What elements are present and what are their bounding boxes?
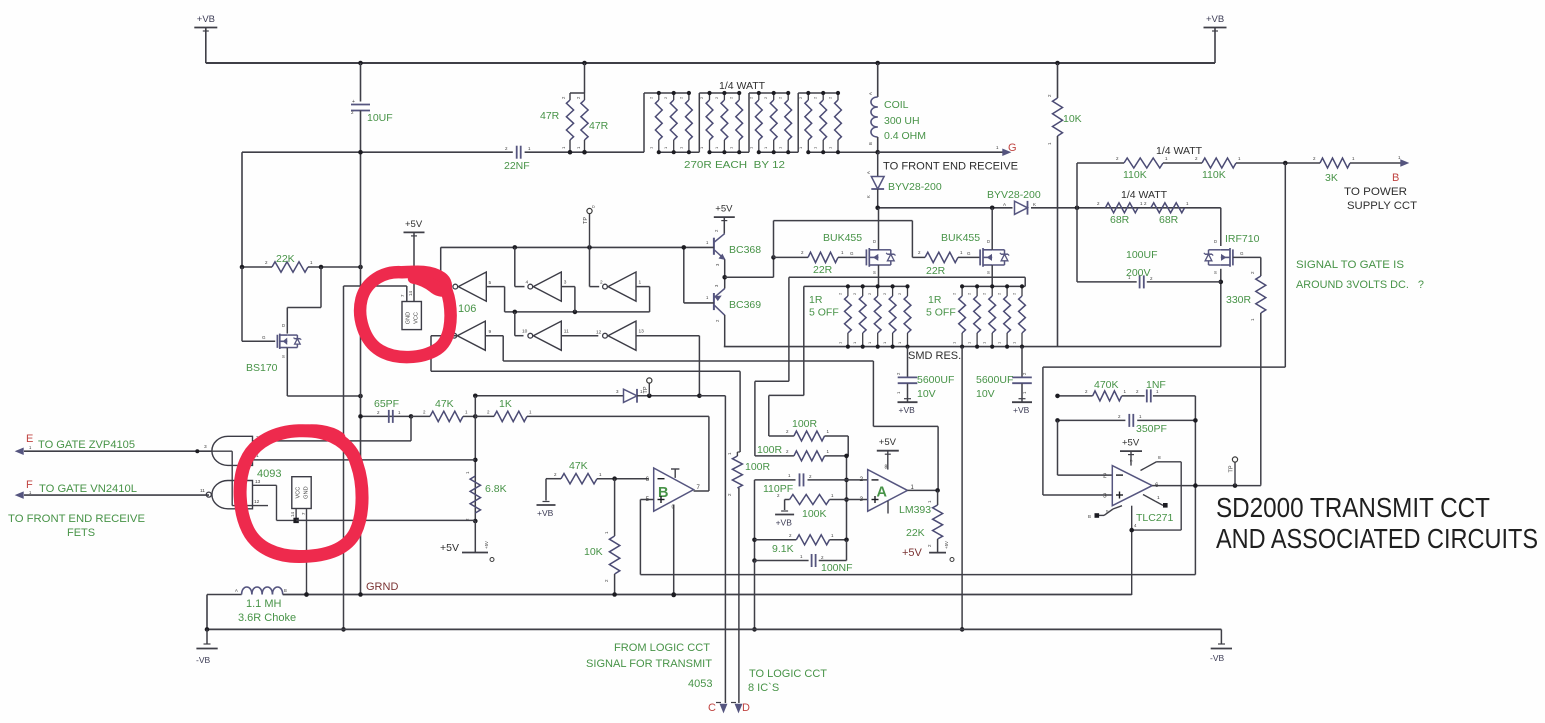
label 4053 bbox=[688, 678, 712, 690]
wire 22K to BS170 drain bbox=[287, 267, 321, 334]
wire 110K row bbox=[1077, 163, 1402, 208]
wire TLC271 output bbox=[1152, 483, 1261, 488]
svg-text:TO POWER: TO POWER bbox=[1344, 186, 1407, 198]
resistor 22R second bbox=[912, 250, 980, 277]
arrow E terminal bbox=[16, 448, 23, 454]
svg-text:11: 11 bbox=[200, 488, 205, 494]
label SIGNAL TO GATE IS bbox=[1296, 259, 1404, 271]
TLC271 pin1 stub bbox=[1143, 495, 1168, 508]
svg-text:G: G bbox=[1240, 251, 1244, 256]
wire source node link y=277.3 bbox=[789, 277, 1025, 286]
label C bbox=[708, 702, 716, 714]
svg-text:8 IC`S: 8 IC`S bbox=[748, 682, 779, 694]
wire 100R-1 left leg bbox=[769, 286, 804, 436]
wire 1K to opampB output bbox=[708, 416, 710, 491]
label F bbox=[26, 479, 33, 495]
svg-text:S: S bbox=[1214, 270, 1217, 275]
label 1/4 WATT bank bbox=[719, 80, 766, 92]
power +VB 47K bbox=[537, 479, 556, 518]
resistor 9.1K bbox=[755, 533, 849, 555]
svg-text:10UF: 10UF bbox=[367, 112, 393, 124]
wire TLC271 plus input bbox=[1043, 163, 1285, 495]
svg-text:110K: 110K bbox=[1202, 169, 1226, 181]
svg-text:100NF: 100NF bbox=[821, 562, 853, 574]
svg-text:+VB: +VB bbox=[537, 508, 554, 518]
svg-text:1K: 1K bbox=[499, 398, 512, 410]
svg-text:LM393: LM393 bbox=[899, 504, 931, 516]
svg-text:1NF: 1NF bbox=[1146, 379, 1166, 391]
label GRND bbox=[366, 581, 398, 593]
svg-text:5600UF: 5600UF bbox=[976, 374, 1013, 386]
inverter U1B bbox=[526, 272, 567, 301]
svg-text:+: + bbox=[352, 99, 355, 105]
power +5V 106 bbox=[404, 219, 425, 302]
svg-text:BC368: BC368 bbox=[729, 244, 761, 256]
label 106 bbox=[458, 303, 476, 315]
svg-text:FETS: FETS bbox=[67, 527, 95, 539]
inverter U1C bbox=[600, 272, 642, 301]
svg-text:68R: 68R bbox=[1159, 214, 1179, 226]
node 47R bottoms bbox=[568, 150, 587, 155]
svg-text:65PF: 65PF bbox=[374, 398, 399, 410]
svg-text:BS170: BS170 bbox=[246, 362, 278, 374]
power +VB 100K bbox=[775, 500, 794, 528]
nand gate 4093a bbox=[204, 436, 253, 465]
svg-text:S: S bbox=[873, 270, 876, 275]
power -VB right bbox=[1210, 629, 1232, 663]
svg-text:+5V: +5V bbox=[902, 547, 923, 559]
wire gate1 input upper bbox=[253, 435, 260, 441]
svg-text:+5V: +5V bbox=[405, 219, 423, 230]
svg-text:COIL: COIL bbox=[884, 99, 909, 111]
wire 106 GND pin to -VB rail bbox=[341, 286, 407, 632]
svg-text:5 OFF: 5 OFF bbox=[809, 307, 839, 319]
transistor BUK455 first bbox=[823, 232, 895, 275]
capacitor 10UF bbox=[351, 63, 393, 152]
wire U1C output to rail bbox=[590, 247, 600, 286]
svg-text:270R EACH BY 12: 270R EACH BY 12 bbox=[684, 159, 785, 171]
svg-text:G: G bbox=[967, 251, 971, 256]
resistor 270R #5 bbox=[714, 91, 728, 154]
power +5V BC368 bbox=[714, 204, 735, 234]
inverter U1A bbox=[453, 272, 492, 301]
svg-text:3: 3 bbox=[564, 280, 567, 286]
svg-text:GND: GND bbox=[406, 312, 412, 324]
svg-text:A: A bbox=[1003, 202, 1006, 207]
svg-text:BUK455: BUK455 bbox=[941, 232, 980, 244]
svg-text:D: D bbox=[1214, 239, 1217, 244]
svg-text:A: A bbox=[866, 171, 871, 174]
wire +5V net y=520.4 bbox=[296, 519, 475, 521]
label FROM LOGIC CCT bbox=[614, 642, 710, 654]
svg-text:S: S bbox=[282, 354, 285, 359]
resistor 1R bank1 #5 bbox=[897, 284, 911, 348]
resistor 270R #3 bbox=[678, 91, 692, 154]
svg-text:22R: 22R bbox=[926, 265, 946, 277]
capacitor 65PF bbox=[374, 398, 401, 423]
svg-text:10V: 10V bbox=[976, 388, 995, 400]
label 1/4 WATT 68R bbox=[1121, 189, 1168, 201]
capacitor 22NF bbox=[504, 146, 531, 172]
svg-text:B: B bbox=[284, 588, 287, 593]
svg-text:100K: 100K bbox=[802, 508, 827, 520]
svg-text:K: K bbox=[866, 195, 871, 198]
wire BUK455-1 drain bbox=[878, 208, 880, 250]
wire bank bottom segments bbox=[659, 151, 878, 153]
svg-text:B: B bbox=[1392, 172, 1399, 184]
svg-text:K: K bbox=[1033, 202, 1036, 207]
svg-text:47R: 47R bbox=[540, 110, 560, 122]
resistor 6.8K bbox=[465, 471, 507, 521]
wire U1A output to rail bbox=[441, 247, 450, 286]
svg-text:350PF: 350PF bbox=[1136, 423, 1167, 435]
wire drain row y=208 bbox=[878, 207, 1221, 209]
wire BUK455-2 drain bbox=[991, 208, 993, 250]
svg-text:1: 1 bbox=[1157, 495, 1160, 501]
TLC271 pin5 stub bbox=[1088, 506, 1122, 519]
label E bbox=[26, 433, 33, 450]
svg-text:10K: 10K bbox=[1063, 113, 1082, 125]
resistor 470K bbox=[1085, 379, 1127, 401]
resistor 330R bbox=[1226, 271, 1266, 321]
svg-text:GRND: GRND bbox=[366, 581, 398, 593]
svg-text:TO LOGIC CCT: TO LOGIC CCT bbox=[749, 668, 827, 680]
transistor BUK455 second bbox=[941, 232, 1009, 275]
wire U1C input riser bbox=[636, 287, 650, 312]
node 47K-1K junction bbox=[473, 414, 478, 419]
resistor 1R bank2 #3 bbox=[982, 284, 996, 348]
wire arrow F bbox=[24, 494, 209, 496]
svg-text:1R: 1R bbox=[928, 294, 942, 306]
label SMD RES bbox=[908, 350, 961, 362]
svg-text:5 OFF: 5 OFF bbox=[926, 307, 956, 319]
transistor BC368 bbox=[706, 229, 761, 266]
resistor 22K bbox=[242, 253, 361, 272]
resistor 47R second bbox=[576, 93, 609, 152]
resistor 110K first bbox=[1116, 156, 1168, 181]
resistor 1R bank1 #2 bbox=[852, 284, 866, 348]
wire source bus y=346.6 bbox=[724, 346, 1221, 348]
svg-text:2: 2 bbox=[1103, 473, 1107, 480]
wire opampB ground pin bbox=[671, 505, 676, 598]
resistor 110K second bbox=[1195, 156, 1241, 181]
svg-text:GND: GND bbox=[304, 486, 310, 498]
inverter U1D bbox=[452, 321, 492, 350]
svg-text:10V: 10V bbox=[917, 388, 936, 400]
wire arrow E bbox=[24, 449, 212, 453]
svg-text:9.1K: 9.1K bbox=[772, 543, 794, 555]
label title line2 bbox=[1216, 523, 1538, 554]
resistor 1R bank1 #4 bbox=[882, 284, 896, 348]
resistor 270R #8 bbox=[763, 91, 777, 154]
capacitor 100UF 200V bbox=[1077, 208, 1221, 289]
label TO FRONT END RECEIVE bbox=[883, 161, 1018, 173]
svg-text:1R: 1R bbox=[809, 294, 823, 306]
resistor 68R first bbox=[1097, 201, 1143, 226]
wire node396 to C line bbox=[699, 396, 725, 703]
power +VB top-right bbox=[1204, 14, 1227, 63]
svg-text:+5V: +5V bbox=[484, 541, 489, 549]
node 110K-3K junction bbox=[1283, 161, 1288, 166]
label TO POWER SUPPLY CCT bbox=[1344, 186, 1417, 212]
svg-text:B: B bbox=[1088, 514, 1091, 519]
svg-text:13: 13 bbox=[639, 329, 645, 335]
resistor 10K opampB bbox=[584, 479, 620, 595]
wire gate drive split bbox=[774, 221, 913, 258]
label 8 ICS bbox=[748, 682, 779, 694]
svg-text:G: G bbox=[262, 335, 266, 340]
svg-text:D: D bbox=[987, 239, 990, 244]
wire 475 vertical bbox=[473, 396, 478, 521]
wire bank top buses bbox=[644, 92, 838, 94]
wire IRF710 gate to 330R bbox=[1233, 257, 1261, 276]
svg-text:3.6R Choke: 3.6R Choke bbox=[238, 612, 296, 624]
svg-text:100R: 100R bbox=[792, 418, 818, 430]
label 4093 bbox=[257, 468, 281, 480]
svg-text:100R: 100R bbox=[757, 444, 783, 456]
svg-text:AROUND 3VOLTS DC. ?: AROUND 3VOLTS DC. ? bbox=[1296, 279, 1424, 291]
resistor 1R bank2 #1 bbox=[952, 284, 966, 348]
svg-text:+5V: +5V bbox=[879, 437, 897, 448]
svg-text:330R: 330R bbox=[1226, 294, 1252, 306]
svg-text:2: 2 bbox=[860, 476, 864, 483]
svg-text:TP: TP bbox=[1229, 465, 1235, 472]
resistor 1R bank2 #5 bbox=[1012, 284, 1026, 348]
svg-text:+5V: +5V bbox=[944, 541, 949, 549]
resistor 270R #10 bbox=[798, 91, 812, 154]
wire 65PF junction to gate1 bbox=[253, 416, 412, 441]
wire U1F input to diode node bbox=[636, 336, 699, 396]
wire BC369 base bbox=[684, 247, 714, 303]
label AROUND 3VOLTS DC bbox=[1296, 279, 1424, 291]
node 4093 vcc square bbox=[293, 509, 298, 524]
svg-text:+5V: +5V bbox=[1122, 438, 1140, 449]
capacitor 110PF bbox=[763, 473, 812, 495]
inductor COIL 300UH bbox=[868, 63, 926, 152]
label G bbox=[1008, 142, 1017, 154]
annotation red circle large bbox=[240, 430, 362, 557]
wire 350PF row bbox=[1055, 418, 1198, 423]
svg-text:D: D bbox=[873, 239, 876, 244]
resistor 47K osc bbox=[411, 398, 475, 422]
resistor 270R #2 bbox=[663, 91, 677, 154]
op-amp B bbox=[646, 468, 701, 511]
node 6.8K bottom bbox=[473, 519, 478, 524]
diode transmit-enable bbox=[473, 389, 702, 403]
arrow D terminal bbox=[731, 703, 742, 713]
svg-text:106: 106 bbox=[458, 303, 476, 315]
resistor 1R bank2 #2 bbox=[967, 284, 981, 348]
wire gate2 pin13 bbox=[253, 479, 294, 520]
wire BUK455-1 source bbox=[878, 265, 880, 286]
svg-text:TO GATE VN2410L: TO GATE VN2410L bbox=[39, 483, 137, 495]
power +5V opampA bbox=[877, 437, 899, 469]
svg-text:VCC: VCC bbox=[296, 487, 302, 499]
wire 100R right join bbox=[825, 436, 849, 540]
svg-text:1/4 WATT: 1/4 WATT bbox=[1121, 189, 1168, 201]
wire mid rail y=311.9 bbox=[505, 310, 650, 315]
capacitor 1NF bbox=[1136, 379, 1166, 402]
annotation red circle small bbox=[360, 271, 450, 357]
resistor 270R #1 bbox=[648, 91, 662, 154]
wire opampB output bbox=[694, 490, 709, 492]
svg-text:3K: 3K bbox=[1325, 172, 1338, 184]
power -VB left bbox=[196, 629, 218, 665]
wire to G arrow bbox=[878, 145, 1003, 152]
svg-text:0.4 OHM: 0.4 OHM bbox=[884, 130, 926, 142]
wire opampA output node bbox=[908, 488, 940, 493]
svg-text:-VB: -VB bbox=[196, 655, 211, 665]
svg-text:SMD RES.: SMD RES. bbox=[908, 350, 961, 362]
svg-text:300 UH: 300 UH bbox=[884, 115, 920, 127]
inverter U1E bbox=[522, 321, 569, 350]
inverter U1F bbox=[596, 321, 644, 350]
wire 22NF row y=152 bbox=[242, 152, 644, 267]
wire bank2 to -VB bbox=[960, 347, 965, 632]
wire feedback left vertical bbox=[752, 480, 757, 632]
resistor 270R #6 bbox=[729, 91, 743, 154]
svg-text:10: 10 bbox=[522, 329, 528, 335]
wire U1E input to U1F output bbox=[561, 335, 598, 337]
arrow B terminal bbox=[1398, 155, 1408, 166]
resistor 1R bank1 #1 bbox=[837, 284, 851, 348]
wire bank1 top bus bbox=[804, 285, 908, 287]
resistor 270R #4 bbox=[699, 91, 713, 154]
testpoint TP2 bbox=[643, 378, 652, 396]
label B bbox=[1392, 172, 1399, 184]
svg-text:+VB: +VB bbox=[1206, 14, 1224, 25]
label 1R 5 OFF first bbox=[809, 294, 839, 319]
diode BYV28-200 vertical bbox=[866, 152, 942, 208]
arrow G terminal bbox=[1003, 149, 1010, 155]
node ground bus junctions bbox=[304, 592, 676, 597]
svg-text:12: 12 bbox=[254, 499, 260, 505]
svg-text:+VB: +VB bbox=[197, 14, 215, 25]
wire 65PF row y=416.4 bbox=[358, 414, 413, 419]
wire 100R-2 left leg bbox=[755, 277, 794, 456]
svg-text:1/4 WATT: 1/4 WATT bbox=[719, 80, 766, 92]
svg-text:8: 8 bbox=[885, 465, 888, 471]
svg-text:47R: 47R bbox=[589, 120, 609, 132]
wire 330R to TLC271 output bbox=[1260, 313, 1262, 485]
wire TLC271 pin4 to ground bbox=[1129, 506, 1137, 595]
svg-text:200V: 200V bbox=[1126, 267, 1151, 279]
resistor 270R #11 bbox=[813, 91, 827, 154]
capacitor 100NF bbox=[755, 540, 853, 574]
svg-text:SD2000 TRANSMIT CCT: SD2000 TRANSMIT CCT bbox=[1216, 492, 1490, 523]
resistor 1K bbox=[475, 398, 709, 422]
svg-text:+VB: +VB bbox=[899, 405, 916, 415]
svg-text:+VB: +VB bbox=[776, 518, 793, 528]
svg-text:AND ASSOCIATED CIRCUITS: AND ASSOCIATED CIRCUITS bbox=[1216, 523, 1538, 554]
svg-text:4093: 4093 bbox=[257, 468, 281, 480]
svg-text:A: A bbox=[868, 92, 873, 95]
wire U1B input riser bbox=[561, 287, 575, 312]
svg-text:FROM LOGIC CCT: FROM LOGIC CCT bbox=[614, 642, 710, 654]
resistor 270R #12 bbox=[828, 91, 842, 154]
wire 470K row bbox=[1055, 394, 1195, 575]
wire BUK455-2 source bbox=[991, 265, 993, 286]
svg-text:8: 8 bbox=[1158, 455, 1161, 461]
svg-text:IRF710: IRF710 bbox=[1225, 233, 1260, 245]
svg-text:VCC: VCC bbox=[414, 312, 420, 324]
svg-text:1: 1 bbox=[639, 280, 642, 286]
svg-text:SIGNAL FOR TRANSMIT: SIGNAL FOR TRANSMIT bbox=[586, 658, 712, 670]
power +5V 6.8K bottom bbox=[440, 521, 494, 562]
svg-text:+5V: +5V bbox=[715, 204, 733, 215]
wire emitter join bbox=[722, 255, 775, 288]
wire U1A input to mid rail bbox=[486, 287, 504, 312]
node top rail junctions bbox=[358, 61, 1060, 66]
wire U1B output to rail bbox=[515, 247, 525, 286]
resistor 22K opampA bbox=[906, 490, 943, 552]
svg-text:22NF: 22NF bbox=[504, 160, 530, 172]
svg-text:47K: 47K bbox=[435, 398, 454, 410]
svg-text:D: D bbox=[282, 323, 285, 328]
svg-text:4: 4 bbox=[526, 280, 529, 286]
capacitor 350PF bbox=[1118, 414, 1167, 435]
label TO LOGIC CCT bbox=[749, 668, 827, 680]
resistor 100K bbox=[777, 493, 847, 520]
node 22K junctions bbox=[240, 265, 363, 270]
svg-text:TO FRONT END RECEIVE: TO FRONT END RECEIVE bbox=[8, 513, 145, 525]
inductor 1.1MH choke bbox=[207, 587, 1132, 624]
svg-text:9: 9 bbox=[489, 329, 492, 335]
transistor IRF710 bbox=[1204, 233, 1260, 275]
svg-text:100R: 100R bbox=[745, 461, 771, 473]
svg-text:C: C bbox=[708, 702, 716, 714]
svg-text:11: 11 bbox=[564, 329, 569, 335]
svg-text:SUPPLY CCT: SUPPLY CCT bbox=[1347, 200, 1417, 212]
resistor 270R #7 bbox=[748, 91, 762, 154]
IC 4093 power box bbox=[290, 477, 311, 517]
wire bank series risers bbox=[644, 93, 798, 152]
wire bank2 top bus bbox=[962, 285, 1025, 287]
svg-text:A: A bbox=[877, 485, 888, 501]
resistor 68R second bbox=[1144, 201, 1189, 226]
op-amp A LM393 bbox=[860, 465, 932, 517]
svg-text:3: 3 bbox=[204, 444, 207, 450]
svg-text:A: A bbox=[235, 588, 238, 593]
svg-text:BYV28-200: BYV28-200 bbox=[987, 189, 1041, 201]
wire BS170 source to ground spine bbox=[287, 348, 363, 399]
svg-text:B: B bbox=[658, 485, 668, 501]
wire 110PF row bbox=[755, 479, 868, 481]
wire top +VB rail bbox=[206, 62, 1215, 64]
resistor 47K opampB bbox=[546, 460, 649, 484]
wire 4093 gnd pin bbox=[304, 509, 309, 597]
label title line1 bbox=[1216, 492, 1490, 523]
wire 68R to IRF710 drain bbox=[1220, 208, 1222, 246]
svg-text:D: D bbox=[742, 702, 750, 714]
svg-text:22R: 22R bbox=[813, 264, 833, 276]
svg-text:B: B bbox=[868, 142, 873, 145]
resistor 22R first bbox=[774, 250, 867, 276]
label 1/4 WATT 110K bbox=[1156, 145, 1203, 157]
label TO FRONT END RECEIVE FETS bbox=[8, 513, 145, 539]
wire U1E output to mid rail bbox=[515, 312, 524, 336]
svg-text:68R: 68R bbox=[1110, 214, 1130, 226]
power +5V 22K maroon bbox=[902, 541, 954, 562]
wire IRF710 source bbox=[1219, 269, 1224, 347]
resistor 3K bbox=[1313, 156, 1355, 184]
diode BYV28-200 horizontal bbox=[987, 189, 1041, 215]
svg-text:TP: TP bbox=[583, 217, 589, 224]
svg-text:6.8K: 6.8K bbox=[485, 483, 507, 495]
svg-text:G: G bbox=[850, 251, 854, 256]
resistor 270R #9 bbox=[778, 91, 792, 154]
arrow C terminal bbox=[716, 703, 727, 713]
